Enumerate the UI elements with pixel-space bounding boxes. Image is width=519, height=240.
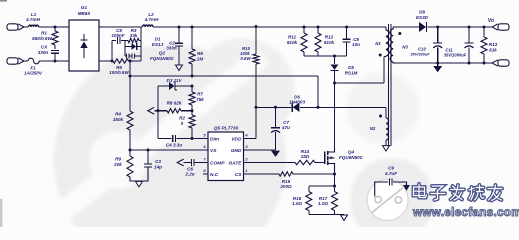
diode D8 ES3D xyxy=(416,10,492,33)
node clamp R11 rail junction xyxy=(303,26,306,29)
wire input top xyxy=(24,26,28,28)
wire zener loop left vertical xyxy=(157,86,159,139)
input terminal J2 (neutral) xyxy=(7,58,24,64)
node rail/R6 junction xyxy=(191,75,194,78)
svg-text:MB6S: MB6S xyxy=(78,11,92,16)
resistor R5 100/0.5W xyxy=(109,59,141,75)
wire gate line xyxy=(249,162,296,164)
capacitor C9 4.7uF xyxy=(375,166,407,197)
output terminal Vo- xyxy=(492,60,509,66)
svg-text:33k: 33k xyxy=(130,33,138,38)
svg-text:D1: D1 xyxy=(155,37,161,42)
wire bridge out top xyxy=(99,26,142,28)
capacitor C7 47u xyxy=(271,107,290,150)
capacitor C6 2.2u xyxy=(177,159,203,176)
svg-text:15Ω: 15Ω xyxy=(301,154,310,159)
svg-text:R1: R1 xyxy=(41,31,47,36)
node R8 left junction xyxy=(157,109,160,112)
node VS junction xyxy=(129,149,132,152)
svg-text:C9: C9 xyxy=(388,166,394,171)
node aux line left junction xyxy=(255,106,258,109)
svg-text:N3: N3 xyxy=(402,45,408,50)
svg-text:4.7mH: 4.7mH xyxy=(25,17,40,22)
svg-text:1A/250V: 1A/250V xyxy=(24,71,43,76)
resistor R14 15ohm xyxy=(295,149,325,165)
svg-text:2.2u: 2.2u xyxy=(184,172,194,177)
svg-text:100nF: 100nF xyxy=(111,33,124,38)
node C11 bottom junction xyxy=(468,62,471,65)
node C10 bottom junction xyxy=(436,62,439,65)
pin 3 GND xyxy=(231,144,249,154)
svg-text:810k: 810k xyxy=(324,40,335,45)
svg-text:75k: 75k xyxy=(196,97,204,102)
svg-text:CX: CX xyxy=(41,45,48,50)
svg-text:COMP: COMP xyxy=(210,161,225,167)
node R13 top junction xyxy=(483,26,486,29)
pin 2 GATE xyxy=(229,157,249,167)
wire sense top bar xyxy=(309,185,335,187)
wire clamp bottom bar xyxy=(304,55,347,57)
svg-text:ES1J: ES1J xyxy=(152,42,164,47)
node R5 tap junction xyxy=(129,60,132,63)
capacitor C10 35V/330uF xyxy=(410,27,442,63)
wire input bottom xyxy=(24,60,28,62)
svg-text:47u: 47u xyxy=(281,125,290,130)
svg-text:4.7uF: 4.7uF xyxy=(384,171,397,176)
wire VS line xyxy=(130,149,203,151)
page edge artifacts xyxy=(0,0,7,227)
watermark text dianzifashaoyou xyxy=(414,184,503,201)
node bridge bottom junction xyxy=(111,60,114,63)
resistor R1 560/0.5W xyxy=(32,27,58,49)
svg-text:330n: 330n xyxy=(166,46,177,51)
wire bridge out bottom xyxy=(99,60,113,62)
svg-text:ES3D: ES3D xyxy=(416,15,429,20)
svg-text:VS: VS xyxy=(210,148,217,154)
node C2 junction xyxy=(178,26,181,29)
ground arrow at C2 xyxy=(176,65,183,70)
wire VDD to vertical xyxy=(249,107,257,138)
resistor R9 20k xyxy=(113,150,148,181)
svg-text:D5: D5 xyxy=(348,65,354,70)
ground arrow at C9 xyxy=(403,185,410,191)
secondary phase dot xyxy=(398,32,401,35)
svg-text:330n: 330n xyxy=(38,50,49,55)
transformer core xyxy=(389,24,391,146)
wire aux supply line xyxy=(256,106,386,108)
node top-left junction xyxy=(54,26,57,29)
node R8 right junction xyxy=(191,109,194,112)
svg-text:10n: 10n xyxy=(352,42,360,47)
pin 4 VDD xyxy=(231,133,248,143)
capacitor C8 10n xyxy=(343,27,361,56)
svg-text:14p: 14p xyxy=(154,165,162,170)
node R13 bottom junction xyxy=(483,62,486,65)
node aux/rail junction xyxy=(317,106,320,109)
transistor Q4 FQU6N50C xyxy=(325,83,364,174)
node C10 top junction xyxy=(436,26,439,29)
node zener row junction xyxy=(191,85,194,88)
resistor R13 81k xyxy=(481,27,498,63)
node Dim row junction xyxy=(191,137,194,140)
node C11 top junction xyxy=(468,26,471,29)
node drain junction xyxy=(333,82,336,85)
wire CS line xyxy=(249,173,280,175)
capacitor C5 100nF xyxy=(111,28,128,44)
svg-text:Q5 PL7730: Q5 PL7730 xyxy=(214,126,239,132)
svg-text:560/0.5W: 560/0.5W xyxy=(32,36,52,41)
svg-text:CS: CS xyxy=(235,172,242,178)
output terminal Vo+ xyxy=(488,18,509,30)
pin 7 COMP xyxy=(203,157,225,167)
diode D6 1N4003 xyxy=(289,95,306,113)
resistor R12 810k xyxy=(315,27,335,56)
svg-text:C4 3.3u: C4 3.3u xyxy=(166,143,183,148)
watermark url www.elecfans.com xyxy=(412,206,519,219)
svg-text:R7: R7 xyxy=(197,92,203,97)
svg-text:0.5W: 0.5W xyxy=(240,56,251,61)
svg-text:Vo: Vo xyxy=(488,18,494,24)
capacitor C4 3.3u xyxy=(158,135,203,147)
ground arrow at N2 xyxy=(383,146,390,151)
input terminal J1 (line) xyxy=(7,24,24,30)
diode D5 RS1M xyxy=(331,56,358,83)
elecfans logo circle xyxy=(367,180,408,221)
capacitor CX 330n xyxy=(38,45,59,62)
svg-text:81k: 81k xyxy=(489,48,497,53)
capacitor C2 330n xyxy=(166,27,183,65)
inductor L2 4.7mH xyxy=(143,12,160,27)
wire GND pin xyxy=(249,149,276,151)
svg-text:100/0.5W: 100/0.5W xyxy=(109,70,129,75)
resistor R2 0 xyxy=(179,111,195,139)
svg-text:Q2: Q2 xyxy=(159,51,166,56)
node C3 top junction xyxy=(147,149,150,152)
svg-text:D3 11V: D3 11V xyxy=(167,78,183,83)
svg-text:R12: R12 xyxy=(325,35,334,40)
node source/CS junction xyxy=(333,173,336,176)
resistor R16 1.0ohm xyxy=(292,186,312,215)
svg-text:1.0Ω: 1.0Ω xyxy=(318,201,328,206)
svg-text:N.C: N.C xyxy=(210,172,219,178)
svg-text:R8 62k: R8 62k xyxy=(167,101,182,106)
node D5 top junction xyxy=(333,55,336,58)
svg-text:D8: D8 xyxy=(419,10,425,15)
wire source down xyxy=(334,174,336,186)
svg-text:Q4: Q4 xyxy=(348,150,355,155)
svg-text:FQU6N50C: FQU6N50C xyxy=(339,155,364,160)
zener diode D3 11V xyxy=(158,78,192,90)
wire drain to primary bottom xyxy=(335,57,387,84)
transformer primary N1 xyxy=(375,27,389,56)
svg-text:GATE: GATE xyxy=(229,161,243,167)
node clamp C8 rail junction xyxy=(345,26,348,29)
ground at GND pin xyxy=(271,151,280,157)
svg-text:810k: 810k xyxy=(287,40,298,45)
pin 5 Dim xyxy=(203,133,220,143)
wire sense bottom bar xyxy=(309,214,344,216)
diode D1 ES1J xyxy=(125,37,164,50)
svg-text:35V/1000uF: 35V/1000uF xyxy=(444,53,467,58)
wire snubber left vertical xyxy=(111,41,113,62)
svg-text:R13: R13 xyxy=(489,42,498,47)
wire top rail to bridge xyxy=(39,26,70,28)
ground at output xyxy=(433,63,442,72)
svg-text:www.elecfans.com: www.elecfans.com xyxy=(412,206,519,219)
resistor R10 100k 0.5W xyxy=(240,27,259,108)
resistor R15 200ohm xyxy=(279,172,335,189)
wire fuse to bridge xyxy=(39,60,69,62)
svg-text:N1: N1 xyxy=(375,41,381,46)
pin 1 CS xyxy=(235,168,249,178)
node R10 rail junction xyxy=(255,25,258,28)
svg-text:R11: R11 xyxy=(288,35,297,40)
svg-text:G1: G1 xyxy=(81,5,88,10)
svg-text:Dim: Dim xyxy=(210,137,220,143)
svg-text:150k: 150k xyxy=(113,117,124,122)
svg-text:1M: 1M xyxy=(197,57,204,62)
svg-text:1N4003: 1N4003 xyxy=(289,100,306,105)
transformer secondary N3 xyxy=(390,27,492,63)
capacitor C11 35V/1000uF xyxy=(444,27,474,63)
transistor Q2 FQN1N50C (cell) xyxy=(125,51,175,62)
svg-text:RS1M: RS1M xyxy=(345,71,358,76)
node rail left corner xyxy=(129,75,132,78)
fuse F1 1A/250V xyxy=(24,58,43,75)
transformer auxiliary N2 xyxy=(370,107,389,145)
svg-text:R4: R4 xyxy=(115,112,121,117)
wire R5 to lower chain xyxy=(129,61,131,111)
svg-text:200Ω: 200Ω xyxy=(279,184,292,189)
pin 6 VS xyxy=(203,144,217,154)
svg-text:20k: 20k xyxy=(113,162,122,167)
svg-text:R2: R2 xyxy=(179,116,185,121)
svg-text:R6: R6 xyxy=(197,51,203,56)
wire block right vertical xyxy=(140,27,142,61)
svg-text:C3: C3 xyxy=(155,159,161,164)
resistor R17 1.0ohm xyxy=(318,186,337,215)
bridge rectifier G1 MB6S xyxy=(69,5,99,71)
node R6 top junction xyxy=(191,26,194,29)
svg-text:35V/330uF: 35V/330uF xyxy=(410,52,430,57)
off-page arrow (dim in) xyxy=(148,107,155,114)
capacitor C3 14p xyxy=(144,150,162,170)
IC U1 Q5 PL7730 xyxy=(208,126,244,181)
svg-text:VDD: VDD xyxy=(231,137,242,143)
ground arrow at R9/C3 xyxy=(136,181,143,186)
inductor L1 xyxy=(25,12,40,27)
ground arrow at sense xyxy=(341,215,348,220)
svg-text:FQN1N50C: FQN1N50C xyxy=(150,56,175,61)
resistor R3 33k xyxy=(128,28,141,43)
node clamp R12 rail junction xyxy=(317,26,320,29)
resistor R6 1M xyxy=(189,27,203,76)
svg-text:GND: GND xyxy=(231,148,242,154)
wire bus rail y77 xyxy=(130,75,318,77)
svg-text:1.0Ω: 1.0Ω xyxy=(292,201,302,206)
resistor R4 150k xyxy=(113,111,133,150)
svg-text:N2: N2 xyxy=(370,126,376,131)
aux phase dot xyxy=(379,115,382,118)
wire top rail middle xyxy=(153,26,386,28)
node CX bottom junction xyxy=(54,60,57,63)
wire rail77 down to aux xyxy=(317,76,319,107)
node C7 top junction xyxy=(274,106,277,109)
resistor R8 62k xyxy=(154,101,192,113)
node sense top junction xyxy=(333,185,336,188)
svg-text:R9: R9 xyxy=(115,157,121,162)
wire block inner vertical xyxy=(124,41,126,57)
resistor R11 810k xyxy=(287,27,307,56)
svg-text:0: 0 xyxy=(181,121,184,126)
resistor R7 75k xyxy=(189,86,204,110)
svg-text:4.7mH: 4.7mH xyxy=(144,17,159,22)
primary phase dot xyxy=(379,54,382,57)
decorative watermark circles xyxy=(51,38,434,240)
pin 8 N.C xyxy=(203,168,219,178)
